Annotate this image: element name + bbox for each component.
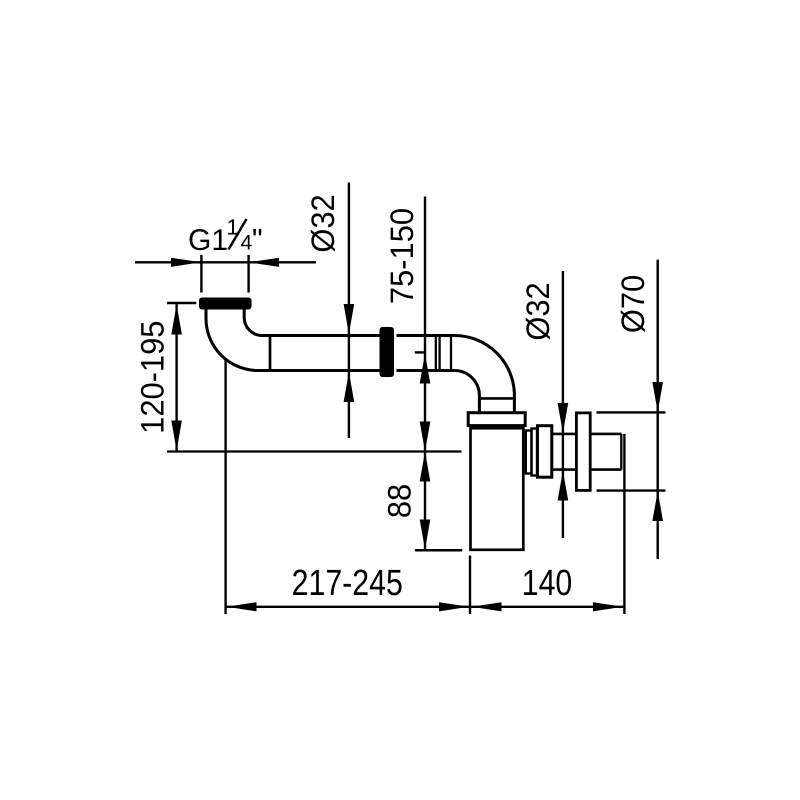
pipe joint line (269, 334, 272, 372)
svg-text:88: 88 (382, 484, 418, 518)
outlet axis line (167, 450, 462, 452)
pipe axis dash (415, 351, 425, 353)
outlet pipe left segment (552, 434, 577, 470)
inlet flange G1 1/4 (black) (199, 298, 252, 310)
arrow 75-150 down (420, 422, 431, 452)
arrow diam32 right up (558, 471, 569, 501)
inlet pipe elbow left outer (206, 310, 381, 371)
bottom dim ext line middle (469, 556, 471, 615)
arrow G1 left (171, 258, 201, 267)
arrow diam70 down (652, 382, 663, 412)
arrow diam32 left down (344, 304, 355, 334)
outlet nut (538, 426, 552, 478)
outlet pipe right segment (590, 434, 621, 470)
gasket ring (black) (380, 327, 395, 377)
dim diam70 line (657, 260, 659, 559)
arrow G1 right (249, 258, 279, 267)
wall flange (576, 413, 590, 491)
arrow 88 up (420, 452, 431, 482)
telescopic joint lines (436, 334, 451, 372)
bottom dim ext line right (623, 434, 625, 614)
dim 120-195 line (175, 303, 177, 452)
outlet stub (526, 431, 532, 474)
arrow 120-195 down (171, 421, 182, 451)
elbow right outer (454, 336, 514, 413)
arrow diam70 up (652, 491, 663, 521)
arrow 120-195 up (171, 305, 182, 335)
arrow 217-245 right (439, 602, 469, 611)
outlet pipe end cap (620, 434, 622, 470)
outlet washer (532, 429, 538, 476)
dim 88 bottom tick (415, 549, 463, 552)
arrow 75-150 up (420, 354, 431, 384)
arrow 140 left (472, 602, 502, 611)
arrow 88 down (420, 520, 431, 550)
svg-text:120-195: 120-195 (134, 321, 170, 434)
bottom dim line (226, 606, 624, 608)
dim diam70 ext lines (597, 412, 666, 490)
dim G1 1/4 line (135, 261, 316, 263)
svg-text:75-150: 75-150 (384, 208, 420, 304)
bottom dim ext line left (224, 359, 226, 614)
bottle trap collar (468, 413, 525, 426)
arrow 140 right (593, 602, 623, 611)
down-pipe joint line (479, 397, 514, 400)
pipe right of gasket top edge (397, 334, 455, 337)
dim 120-195 tick (167, 302, 196, 305)
arrow diam32 left up (344, 372, 355, 402)
arrow 217-245 left (227, 602, 257, 611)
dim G1 1/4 ext lines (201, 255, 248, 293)
svg-text:140: 140 (522, 562, 573, 603)
pipe right of gasket bottom edge (397, 369, 455, 372)
dim diam32 left line (348, 183, 350, 439)
svg-text:217-245: 217-245 (292, 562, 403, 603)
svg-text:4: 4 (241, 232, 253, 255)
bottle trap body (471, 428, 524, 550)
svg-text:": " (252, 224, 263, 257)
inlet pipe elbow left inner (244, 310, 380, 336)
svg-text:Ø32: Ø32 (520, 282, 556, 340)
main vertical dim line 75-150 / 88 (424, 197, 426, 551)
svg-text:Ø32: Ø32 (305, 194, 341, 252)
elbow right inner (454, 371, 479, 413)
svg-text:Ø70: Ø70 (615, 275, 651, 333)
arrow diam32 right down (558, 403, 569, 433)
svg-text:G1: G1 (188, 224, 228, 257)
dim diam32 right line (562, 271, 564, 538)
